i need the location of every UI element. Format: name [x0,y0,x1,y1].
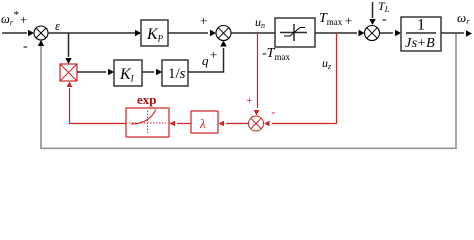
svg-text:ωr: ωr [457,10,470,26]
wire: M1 output to KI [77,69,114,75]
wire: KP output to S2 [168,30,216,36]
svg-text:+: + [20,12,27,27]
svg-text:exp: exp [137,92,157,107]
block exp nonlinearity [126,108,169,137]
wire: reference input into S1 [2,30,34,36]
block KP proportional gain [141,20,168,46]
node un tap / red wire down to S4 [254,34,260,116]
summing junction S1 [34,26,48,40]
multiplier M1 red box [60,64,77,81]
svg-text:un: un [255,15,265,30]
wire: KI output to integrator [142,69,162,75]
svg-text:-: - [271,104,275,119]
wire: error signal S1 to KP [48,30,141,36]
arrowhead feedback into S1 [38,40,44,46]
wire: lambda to exp block [170,121,192,127]
svg-text:+: + [210,47,217,62]
svg-text:-: - [23,39,28,54]
svg-text:-Tmax: -Tmax [262,46,290,62]
svg-text:-: - [382,12,387,27]
summing junction S3 [365,26,380,41]
wire: S2 output to saturation [231,32,275,34]
svg-text:q: q [202,53,209,68]
node uz tap / red wire down and left to S4 [264,34,337,126]
svg-text:uz: uz [322,56,332,71]
block 1/s integrator [162,60,188,86]
summing junction S2 [216,26,231,41]
svg-text:1: 1 [417,17,425,34]
wire: load torque TL into S3 [369,2,375,25]
summing junction S4 red [249,116,264,131]
svg-text:ωr*: ωr* [1,9,19,27]
svg-text:+: + [200,13,207,28]
svg-text:1/s: 1/s [168,66,186,82]
wire: speed feedback grey path right-bottom-left [41,34,456,148]
wire: error drop to multiplier M1 [65,33,71,64]
svg-text:+: + [246,93,253,107]
wire: S4 output to lambda block [219,121,249,127]
block KI integral gain [114,60,142,86]
block plant 1/(Js+B) [401,17,441,52]
wire: S3 to plant [380,30,402,36]
svg-text:ε: ε [55,18,61,33]
svg-text:Tmax: Tmax [319,11,343,27]
wire: saturation output to S3 [315,30,365,36]
block lambda gain [191,111,218,133]
block saturation limiter [275,18,315,47]
wire: q from integrator up into S2 [188,41,227,73]
svg-text:+: + [345,13,352,28]
wire: plant output wr [441,30,472,36]
svg-text:λ: λ [199,116,206,131]
wire: exp output left and up into M1 [67,82,126,124]
svg-text:Js+B: Js+B [405,36,435,51]
